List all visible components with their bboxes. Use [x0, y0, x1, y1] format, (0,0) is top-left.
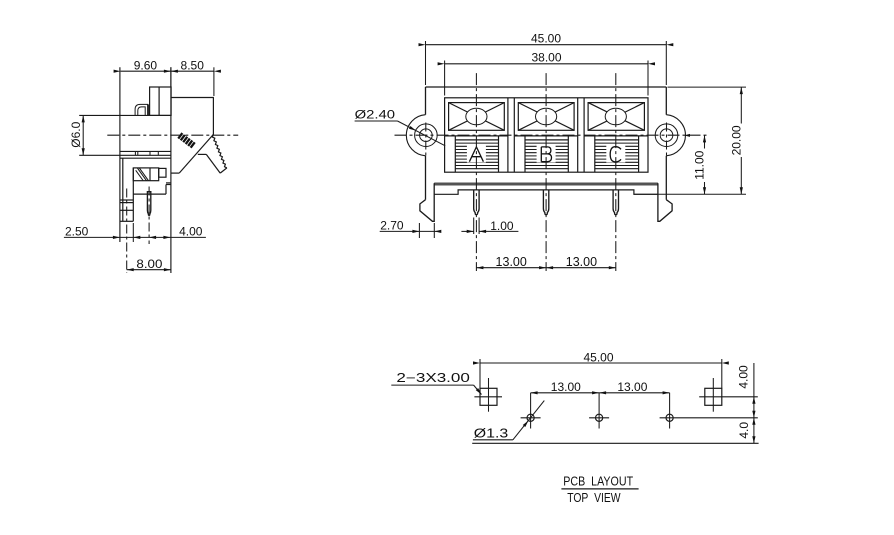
svg-text:38.00: 38.00	[531, 51, 561, 65]
svg-text:2−3X3.00: 2−3X3.00	[396, 371, 470, 385]
dim 38.00 right arrow	[648, 62, 655, 65]
svg-text:PCB LAYOUT: PCB LAYOUT	[563, 473, 633, 488]
front view right mounting ear lobe	[666, 115, 685, 156]
side view band line 2 (dia 6 lower extension)	[79, 154, 171, 156]
label dia 2.40 leader	[398, 121, 446, 146]
pcb right square horizontal centerline	[699, 396, 758, 398]
pin B	[543, 190, 548, 215]
dim 20.00 top extension line	[668, 86, 747, 88]
svg-text:8.50: 8.50	[181, 59, 205, 73]
pcb hole 1 vertical centerline	[530, 393, 532, 429]
horizontal main centerline	[395, 134, 708, 136]
pin A	[474, 190, 479, 215]
front view left mounting ear lobe	[406, 115, 425, 156]
side view hatch box divider	[149, 168, 151, 181]
pcb 45.00 left extension	[479, 359, 481, 389]
dim 1.00 right arrow	[479, 230, 486, 233]
pcb dim 45.00 left arrow	[473, 361, 480, 364]
svg-text:13.00: 13.00	[617, 380, 647, 394]
svg-text:45.00: 45.00	[583, 351, 613, 365]
front view body bottom edge	[434, 182, 658, 184]
pcb dim 45.00 line	[480, 362, 722, 364]
cell C lower section top edge	[584, 135, 648, 137]
pcb board edge line	[472, 442, 758, 444]
dim 8.00 line	[127, 269, 171, 271]
dim 9.60/8.50 line	[121, 70, 214, 72]
cell C hatch lines	[595, 143, 639, 169]
svg-text:4.00: 4.00	[179, 224, 203, 238]
dim 1.00 left arrow	[467, 230, 474, 233]
cell B vertical centerline	[545, 73, 547, 271]
front view body left edge lower	[425, 156, 427, 200]
label 2-3X3.00 leader	[474, 385, 482, 394]
side view hatch diagonal 2	[139, 168, 148, 181]
cell A fuse window box	[449, 103, 505, 131]
cell B letter B	[541, 147, 551, 162]
side view hatch box	[133, 168, 158, 181]
label dia 2.40 underline	[355, 120, 398, 122]
dim 13.00 first left arrow	[476, 266, 483, 269]
side view mounting face line	[170, 67, 172, 273]
cell C lower left wall	[594, 136, 596, 172]
front view base flange outline	[434, 190, 658, 194]
side view lever tip edge	[220, 168, 227, 173]
side view hatch diagonal 1	[137, 168, 146, 181]
cell B bowtie diagonal 1	[518, 103, 574, 131]
svg-text:8.00: 8.00	[136, 257, 162, 271]
side view hatch diagonal 3	[136, 170, 143, 180]
cell C lower right wall	[638, 136, 640, 172]
pcb hole 2 vertical centerline	[598, 393, 600, 429]
side view clamp line 3	[120, 209, 133, 211]
cell A letter A	[469, 147, 483, 162]
front view right foot	[658, 183, 672, 221]
pcb right square pad	[705, 388, 722, 405]
dim 1.00 left line	[461, 230, 473, 232]
dim 4.00 left arrow	[149, 236, 156, 239]
left mounting hole outer circle	[415, 124, 438, 147]
cell C vertical centerline	[615, 73, 617, 271]
cell B center ellipse	[536, 108, 557, 125]
pcb dim 13.00 second right arrow	[663, 391, 670, 394]
dim 9.60 right arrow	[171, 70, 178, 73]
side view clamp bottom	[120, 220, 133, 222]
dim 20.00 bottom extension line	[634, 193, 746, 195]
dim 2.50 right arrow	[133, 236, 140, 239]
pcb dim 13.00 first right arrow	[592, 391, 599, 394]
side view top box	[150, 87, 172, 115]
dim 11.00 line upper	[704, 135, 706, 148]
front view body bottom edge second line	[434, 184, 658, 186]
side view housing top edge	[171, 97, 214, 99]
right mounting hole inner circle	[660, 129, 673, 142]
pcb left square horizontal centerline	[474, 396, 502, 398]
left hole vertical centerline	[425, 123, 427, 159]
dim 9.60 mid extension	[170, 67, 172, 87]
dim 1.00 right extension line	[478, 218, 480, 235]
side view band line 1	[120, 150, 171, 152]
side view step small edge	[166, 182, 171, 184]
side view bracket mid line	[148, 104, 150, 115]
dim 45.00 left extension line	[425, 41, 427, 85]
label 2-3X3.00 underline	[391, 384, 473, 386]
side view clamp line 2	[120, 202, 133, 204]
cell B hatch lines	[525, 143, 568, 169]
svg-text:13.00: 13.00	[496, 255, 527, 269]
side view centerline	[107, 134, 238, 136]
cell C letter background	[606, 145, 625, 162]
pcb hole 3 horizontal centerline extended	[660, 417, 758, 419]
cell B bowtie diagonal 2	[518, 103, 574, 131]
svg-text:45.00: 45.00	[531, 32, 561, 46]
cell C bowtie diagonal 1	[588, 103, 644, 131]
side view band line 3	[120, 157, 171, 159]
left mounting hole inner circle	[420, 129, 433, 142]
dim 38.00 line	[445, 63, 648, 65]
dim dia 6.0 bottom arrow	[82, 148, 85, 155]
cell B fuse window box	[518, 103, 574, 131]
dim 1.00 right line	[479, 230, 518, 232]
pin C	[613, 190, 618, 215]
dim 13.00 second line	[546, 267, 616, 269]
dim 45.00 left arrow	[419, 43, 426, 46]
dim 45.00 right arrow	[666, 43, 673, 46]
dim 2.70 left extension line	[418, 223, 420, 238]
side view lever notch	[198, 153, 207, 155]
pcb dim 4.00 top arrow	[752, 397, 755, 404]
label dia 1.3 leader	[513, 401, 544, 440]
dim 2.70 left arrow	[412, 230, 419, 233]
pcb hole 2 circle	[596, 414, 603, 421]
svg-text:1.00: 1.00	[490, 219, 514, 233]
dim 8.50 right arrow	[214, 70, 221, 73]
svg-text:13.00: 13.00	[551, 380, 581, 394]
svg-text:Ø6.0: Ø6.0	[69, 121, 83, 147]
svg-text:13.00: 13.00	[566, 255, 597, 269]
dim 9.60 left arrow	[114, 70, 121, 73]
dim 13.00 second right arrow	[609, 266, 616, 269]
dim 38.00 right extension line	[647, 61, 649, 96]
dim dia 6.0 top arrow	[82, 115, 85, 122]
dim 1.00 left extension line	[473, 218, 475, 235]
front view body right edge lower	[665, 156, 667, 200]
dim 45.00 right extension line	[665, 41, 667, 85]
cell B lower section top edge	[514, 135, 577, 137]
side view band ticks	[135, 151, 158, 155]
side view lever serrated edge	[212, 135, 227, 168]
svg-text:Ø1.3: Ø1.3	[474, 427, 509, 441]
svg-text:2.50: 2.50	[65, 224, 89, 238]
pcb hole 1 horizontal centerline	[521, 417, 541, 419]
side view solder pin	[147, 192, 150, 216]
cell A letter background	[467, 145, 486, 162]
cell B right wall edge	[577, 98, 579, 172]
svg-text:4.00: 4.00	[737, 365, 751, 389]
cell A lower section top edge	[445, 135, 508, 137]
pcb dim 13.00 first line	[531, 392, 600, 394]
dim 13.00 first right arrow	[539, 266, 546, 269]
front view left foot	[420, 183, 434, 221]
cell B lower left wall	[524, 136, 526, 172]
label 2-3X3.00 arrow	[476, 388, 482, 394]
dim dia 6.0 line	[82, 115, 84, 155]
svg-text:2.70: 2.70	[380, 219, 404, 233]
dim 38.00 left arrow	[438, 62, 445, 65]
pcb hole 2 horizontal centerline	[589, 417, 609, 419]
side view housing bottom edge	[171, 172, 179, 174]
dim 2.70 right arrow	[434, 230, 441, 233]
side view clamp centerline	[126, 189, 128, 274]
cell A lower right wall	[498, 136, 500, 172]
dim 11.00 line lower	[704, 182, 706, 194]
front view body left edge upper	[425, 87, 427, 115]
dim 20.00 bottom arrow	[740, 187, 743, 194]
dim 2.70 line	[380, 230, 441, 232]
side view housing right edge	[212, 98, 214, 135]
cell C center ellipse	[605, 108, 626, 125]
dim 8.00 left arrow	[127, 268, 134, 271]
title divider line	[561, 488, 638, 490]
front view body top edge	[426, 86, 667, 88]
cell C letter C	[610, 147, 621, 162]
dim 11.00 top arrow	[703, 135, 706, 142]
front view inner recess rectangle	[445, 98, 648, 172]
dim 11.00 bottom arrow	[703, 187, 706, 194]
side view clamp right wall	[132, 168, 134, 221]
cell C hatch box top	[595, 139, 639, 141]
label dia 1.3 arrow	[523, 421, 529, 427]
front view body right edge upper	[665, 87, 667, 115]
cell C fuse window box	[588, 103, 644, 131]
cell B left wall edge	[513, 98, 515, 172]
cell A bowtie diagonal 2	[449, 103, 505, 131]
dim 2.50 left arrow	[113, 236, 120, 239]
pcb 45.00 right extension	[721, 359, 723, 389]
pcb hole 3 circle	[666, 414, 673, 421]
pcb hole 3 vertical centerline	[669, 393, 671, 429]
label dia 2.40 arrow	[409, 126, 416, 131]
svg-text:Ø2.40: Ø2.40	[355, 107, 396, 121]
svg-text:4.0: 4.0	[737, 422, 751, 439]
pcb dim 45.00 right arrow	[722, 361, 729, 364]
pcb left square pad	[480, 388, 497, 405]
centerline end arrow	[684, 134, 690, 137]
dim 8.50 left arrow	[164, 70, 171, 73]
dim 20.00 line lower	[740, 157, 742, 194]
side view step right vertical	[165, 185, 167, 195]
cell A bowtie diagonal 1	[449, 103, 505, 131]
svg-text:20.00: 20.00	[729, 125, 743, 155]
pcb right dim vertical line	[753, 363, 755, 443]
side view clamp line 1	[120, 199, 133, 201]
dim 13.00 first line	[476, 267, 546, 269]
cell A hatch lines	[455, 143, 498, 169]
pcb dim 13.00 second line	[599, 392, 670, 394]
side view left inner wall	[122, 158, 124, 221]
cell B letter background	[537, 145, 556, 162]
cell A hatch box top	[455, 139, 498, 141]
side view screw spring (solid black)	[178, 133, 194, 148]
pcb dim 4.00 bottom arrow	[752, 411, 755, 418]
dim 8.50 right extension	[213, 67, 215, 96]
side view step notch edge	[166, 184, 171, 186]
dim 2.50/4.00 line	[64, 236, 206, 238]
pcb left square vertical centerline	[488, 378, 490, 412]
dim 38.00 left extension line	[444, 61, 446, 96]
dim 13.00 second left arrow	[546, 266, 553, 269]
dim 2.70 right extension line	[433, 223, 435, 238]
pcb dim 13.00 first left arrow	[531, 391, 538, 394]
dim 4.00 right arrow	[163, 236, 170, 239]
side view bracket inner hook	[138, 107, 145, 116]
pcb dim 4.0 bottom arrow	[752, 436, 755, 443]
side view step bottom edge	[133, 193, 166, 195]
side view pin centerline	[148, 187, 150, 245]
dim 8.00 right arrow	[164, 268, 171, 271]
side view flange top edge	[79, 114, 171, 116]
dim 20.00 top arrow	[740, 87, 743, 94]
cell C left wall edge	[583, 98, 585, 172]
side view housing diagonal	[179, 135, 213, 174]
right mounting hole outer circle	[655, 124, 678, 147]
side view top box divider	[158, 87, 160, 115]
side view small box right	[159, 168, 166, 177]
dim 2.50 right extension	[132, 223, 134, 242]
side view lever inner edge	[206, 154, 220, 173]
dim 20.00 line upper	[740, 87, 742, 123]
pcb hole 1 circle	[527, 414, 534, 421]
pcb dim 4.0 top arrow	[752, 418, 755, 425]
cell C bowtie diagonal 2	[588, 103, 644, 131]
label dia 1.3 underline	[473, 439, 513, 441]
cell B hatch box top	[525, 139, 568, 141]
pcb right square vertical centerline	[712, 378, 714, 412]
cell B lower right wall	[567, 136, 569, 172]
cell A right wall edge	[507, 98, 509, 172]
svg-text:11.00: 11.00	[693, 150, 707, 179]
right hole vertical centerline	[666, 123, 668, 159]
cell A vertical centerline	[475, 73, 477, 271]
svg-text:9.60: 9.60	[134, 59, 158, 73]
side view bracket outer hook	[135, 104, 148, 115]
cell A center ellipse	[466, 108, 487, 125]
cell A lower left wall	[454, 136, 456, 172]
dim 45.00 line	[426, 44, 667, 46]
svg-text:TOP VIEW: TOP VIEW	[567, 490, 621, 505]
pcb dim 13.00 second left arrow	[599, 391, 606, 394]
side view flange left edge	[119, 67, 121, 242]
